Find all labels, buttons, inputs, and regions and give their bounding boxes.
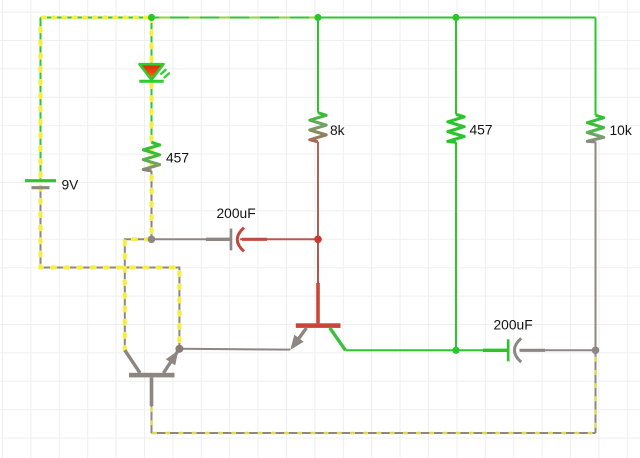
current dots: node to Q1 collector: [125, 239, 149, 350]
transistor Q2 (red NPN): [290, 283, 345, 350]
wire: node to Q1 collector: [125, 239, 152, 350]
svg-text:457: 457: [470, 123, 493, 138]
wire: 8k to node B: [317, 142, 319, 240]
wire: LED column top: [151, 18, 153, 65]
wire: battery top lead: [40, 18, 42, 180]
node A: 457L / C1 / Q1 collector: [148, 236, 156, 244]
svg-text:200uF: 200uF: [217, 206, 256, 221]
wire: node B to Q2 base: [317, 239, 319, 323]
wire: LED to resistor: [151, 81, 153, 142]
wire: 457R to collector rail: [455, 142, 457, 350]
resistor R2 8k: [310, 113, 326, 142]
svg-text:9V: 9V: [62, 178, 80, 193]
wire: Q1 emitter to Q2 emitter: [179, 348, 290, 351]
wire: resistor 457 to node: [151, 171, 153, 239]
wire: bottom base rail: [152, 432, 596, 434]
wire: battery bottom lead down to loop: [40, 188, 42, 267]
node: right junction 10k / C2: [592, 347, 600, 355]
wire: cap C2 right lead: [520, 349, 596, 351]
node: emitter junction: [175, 345, 183, 353]
current dots: LED column: [149, 20, 153, 239]
svg-text:457: 457: [166, 151, 189, 166]
wire: base rail up to Q1 base: [151, 400, 153, 433]
svg-text:8k: 8k: [330, 123, 345, 138]
wire: Q2 collector to right: [346, 349, 457, 351]
wire: 8k column top: [317, 18, 319, 113]
wire: 457R column top: [455, 18, 457, 115]
node: collector rail junction: [452, 347, 459, 354]
transistor Q1 (gray NPN): [125, 350, 179, 406]
LED D1: [139, 64, 169, 81]
current dots: base rail: [152, 352, 596, 433]
current dots: faint top rail: [160, 16, 318, 18]
capacitor C2 200uF: [483, 338, 545, 362]
wire: cap C2 left lead: [456, 349, 508, 351]
capacitor C1 200uF: [206, 228, 267, 252]
wire: top rail: [41, 17, 596, 19]
svg-text:10k: 10k: [610, 123, 632, 138]
node: top junction at 8k column: [314, 14, 321, 21]
resistor R4 10k: [587, 115, 603, 142]
wire: ground return loop: [41, 268, 180, 349]
battery V1 9V: [25, 181, 56, 188]
svg-text:200uF: 200uF: [494, 318, 533, 333]
current dots: left loop: [41, 20, 180, 349]
current dots: top rail segment: [43, 16, 152, 20]
wire: 10k column top: [595, 18, 597, 116]
node: top junction at 457R column: [452, 14, 459, 21]
resistor R1 457 (left): [143, 142, 159, 171]
node: top junction at LED column: [148, 14, 155, 21]
wire: cap C1 to node B: [240, 238, 318, 240]
resistor R3 457 (right): [448, 114, 464, 142]
wire: right node down to base rail: [595, 350, 597, 433]
wire: node to cap C1: [152, 238, 232, 240]
wire: 10k to right node: [595, 142, 597, 350]
node B: 8k / C1 / Q2 base: [314, 236, 322, 244]
